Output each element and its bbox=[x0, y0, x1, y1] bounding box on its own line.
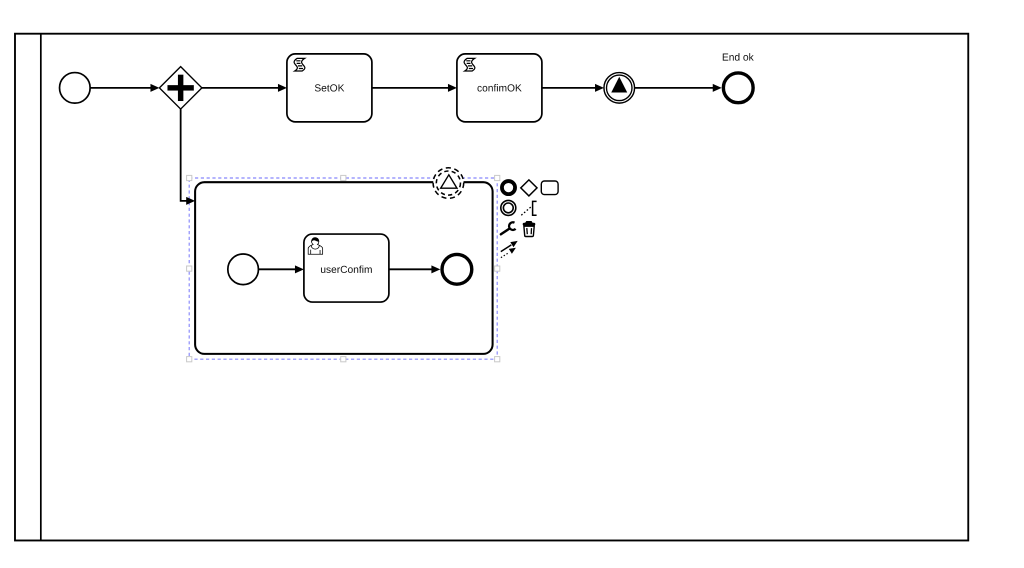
wire escalation->End ok bbox=[635, 84, 722, 92]
wire start->gateway bbox=[90, 84, 159, 92]
pad icon: append task bbox=[541, 181, 558, 195]
pad icon: wrench (change type) bbox=[501, 222, 516, 234]
task userConfim (user) bbox=[304, 234, 389, 302]
task confimOK (script) bbox=[457, 54, 542, 122]
pool lane divider bbox=[40, 34, 42, 541]
wire inner start->userConfim bbox=[258, 265, 303, 273]
wire userConfim->inner end bbox=[389, 265, 440, 273]
selection outline of subprocess bbox=[189, 178, 497, 359]
pad icon: trash (delete) bbox=[523, 221, 535, 236]
end event End ok bbox=[723, 73, 753, 103]
pad icon: connect (connection-multi) bbox=[501, 241, 518, 258]
pad icon: append gateway bbox=[521, 180, 537, 196]
pad icon: append intermediate event bbox=[501, 200, 516, 215]
wire gateway->subprocess bbox=[181, 109, 195, 205]
inner start event bbox=[228, 254, 259, 285]
event E1 intermediate escalation throw bbox=[604, 73, 635, 104]
boundary event B1 escalation non-interrupting bbox=[433, 168, 464, 199]
label End ok bbox=[723, 53, 754, 60]
subprocess SP1 (expanded) bbox=[195, 182, 493, 354]
pad icon: append end event bbox=[502, 181, 515, 194]
pad icon: text annotation bbox=[521, 201, 536, 215]
wire confimOK->escalation event bbox=[542, 84, 604, 92]
inner end event bbox=[442, 254, 472, 284]
wire gateway->SetOK bbox=[202, 84, 287, 92]
task SetOK (script) bbox=[287, 54, 372, 122]
context pad bbox=[501, 180, 558, 258]
start event bbox=[60, 73, 91, 104]
wire SetOK->confimOK bbox=[372, 84, 457, 92]
gateway G1 (parallel) bbox=[159, 67, 202, 110]
resize handles bbox=[187, 175, 500, 361]
